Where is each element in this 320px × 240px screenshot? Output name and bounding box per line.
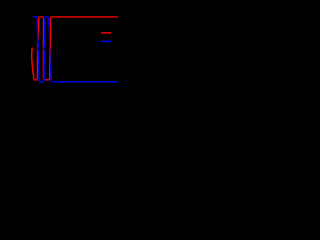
legend red swatch — [101, 32, 111, 34]
red top segment 2 (long) — [51, 16, 118, 18]
blue baseline segment 2 (long) — [51, 81, 118, 83]
blue baseline segment 1 — [39, 81, 44, 83]
red wave rise2 — [49, 18, 52, 80]
blue wave fall2 upper (bright then fading slant) — [47, 17, 49, 26]
red baseline segment 1 — [34, 79, 38, 81]
red wave rise1 — [37, 18, 38, 79]
blue top segment 2 — [45, 16, 48, 18]
red wave fall2 — [42, 18, 44, 80]
red baseline segment 2 — [44, 79, 50, 81]
blue wave fall2 lower (purple overlap zone then bright) — [49, 50, 51, 64]
blue wave rise1 (upper half only, fades at bottom) — [32, 17, 34, 49]
red top segment 1 — [39, 16, 44, 18]
background — [0, 0, 140, 98]
legend blue swatch — [101, 40, 111, 42]
break dim band over edges — [36, 47, 45, 50]
blue top segment 1 — [33, 16, 38, 18]
red wave fall1 (lower half only, S-drift right to baseline) — [32, 48, 34, 80]
blue wave rise2 — [43, 17, 46, 81]
blue wave fall1 (slants right, dim mid band) — [37, 17, 39, 81]
